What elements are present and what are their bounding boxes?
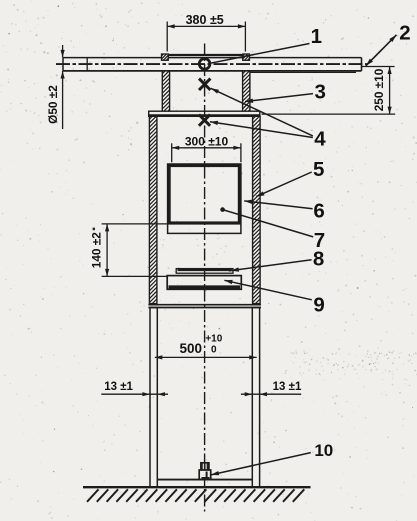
svg-text:13 ±1: 13 ±1 [104,381,133,393]
pivot circle [199,59,210,70]
dim 250 extension lines [262,67,396,115]
X mark lower [199,115,210,126]
dim dia50 text [46,85,60,124]
callout 2 leader [366,35,397,66]
svg-text:1: 1 [311,25,322,48]
shelf box [167,276,241,290]
callout 8 leader [229,260,312,272]
dim 380 line [167,24,245,28]
dim 380 text [186,13,224,27]
ground line [83,486,311,488]
callout 9 leader [224,280,311,300]
svg-text:4: 4 [314,128,326,151]
callout 7 leader [220,207,313,237]
dim 300 extension lines [172,143,241,162]
ground hatching [87,489,304,502]
dim 140 line [105,224,109,277]
callout 10 leader [211,453,311,476]
head left wall [161,62,170,118]
head top cap [162,54,250,56]
svg-text:Ø50 ±2: Ø50 ±2 [46,85,60,124]
crossbar inner sleeve end [86,58,88,71]
svg-text:6: 6 [313,200,324,223]
dim 13 left text [104,381,133,393]
dim 500 text [180,334,223,357]
svg-text:9: 9 [313,294,324,317]
dim 380 extension lines [167,22,245,52]
head cap left tab [161,45,170,66]
display housing outer box [168,164,241,233]
callout 4 leader b [210,121,313,138]
callout 4 [314,128,326,151]
callout 1 leader [210,44,310,64]
lower column right wall [252,308,259,487]
svg-text:8: 8 [313,248,324,271]
callout 2 [399,21,410,44]
callout 4 leader a [211,88,313,136]
callout 3 leader [245,94,313,103]
svg-text:250 ±10: 250 ±10 [372,68,386,111]
crossbar centerline [56,63,368,65]
svg-text:380 ±5: 380 ±5 [186,13,224,27]
column top plate [149,111,260,116]
dim 13 left line [101,392,168,396]
dim 13 right line [241,392,301,396]
svg-text:10: 10 [314,441,333,460]
vertical centerline [204,44,206,512]
callout 5 [313,158,324,181]
tray strip [176,269,233,274]
callout 5 leader [256,172,311,197]
svg-text:3: 3 [314,81,325,104]
callout 6 leader [244,200,312,209]
dim 250 text [372,68,386,111]
callout 9 [313,294,324,317]
dim 250 line [388,67,392,115]
callout 1 [311,25,322,48]
callout 6 [313,200,324,223]
svg-text:13 ±1: 13 ±1 [273,381,302,393]
svg-text:500: 500 [180,341,203,356]
column joint seam [148,305,261,308]
upper column right wall [252,107,262,308]
svg-text:5: 5 [313,158,324,181]
bolt head [201,463,209,470]
display bezel [169,166,239,224]
svg-text:140 ±2: 140 ±2 [89,232,103,268]
callout 7 [314,229,325,252]
dim 140 text [89,228,103,269]
dim 500 line [155,355,257,359]
callout 10 [314,441,333,460]
dim dia50 lines [61,45,65,129]
dim 140 extension lines [102,224,169,277]
svg-text:300 ±10: 300 ±10 [185,134,229,148]
crossbar tube [63,58,362,73]
dim 300 line [172,146,241,150]
upper column left wall [148,107,158,308]
X mark upper [199,79,210,90]
callout 8 [313,248,324,271]
callout 3 [314,81,325,104]
dim 13 right text [273,381,302,393]
svg-text:+10: +10 [205,334,222,345]
svg-text:0: 0 [211,345,217,356]
svg-text:2: 2 [399,21,410,44]
bolt body [199,470,211,479]
dim 300 text [185,134,229,148]
head cap right tab [242,45,251,66]
column inner bottom [157,479,252,481]
lower column left wall [150,308,157,487]
head right wall [242,62,251,118]
